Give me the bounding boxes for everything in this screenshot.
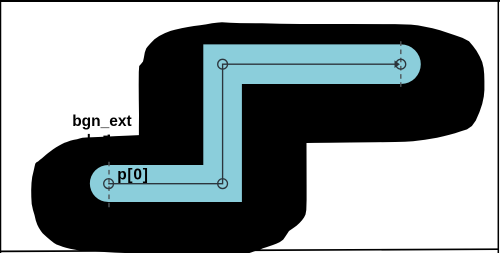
blue path body (3 segments, slightly different widths as in original) (90, 44, 421, 202)
dashed line at begin point p[0] (108, 162, 110, 208)
svg-text:bgn_ext: bgn_ext (72, 113, 131, 130)
hidden label tips below bgn_ext (88, 134, 90, 138)
svg-text:p[0]: p[0] (117, 167, 148, 184)
vertex circle at end (396, 59, 406, 69)
spine / centerline (108, 64, 395, 183)
vertex circle p[2] (218, 59, 228, 69)
frame border: right (497, 0, 499, 253)
frame border: top (0, 0, 500, 2)
frame border: bottom (slightly slanted as in original) (0, 249, 498, 251)
vertex circle p[0] (104, 179, 114, 189)
frame border: left (0, 0, 2, 253)
vertex circle p[1] (218, 179, 228, 189)
arrowhead at end point (395, 60, 400, 68)
dashed line at end point (400, 41, 402, 87)
